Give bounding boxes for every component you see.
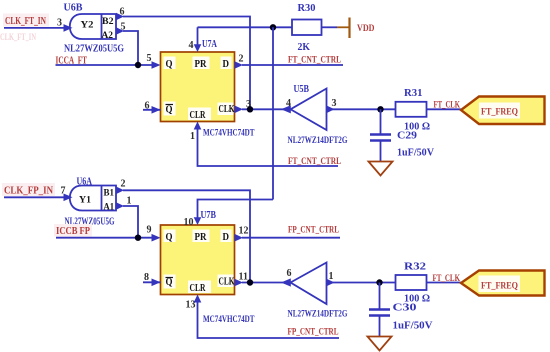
svg-text:CLK_FT_IN: CLK_FT_IN bbox=[0, 32, 36, 42]
wire: U7A PR riser to pull-up rail bbox=[197, 27, 199, 46]
resistor R31 bbox=[396, 102, 427, 117]
svg-text:NL27WZ14DFT2G: NL27WZ14DFT2G bbox=[288, 136, 348, 146]
svg-text:ICCB FP: ICCB FP bbox=[56, 226, 90, 237]
wire: U7B CLK to U5A output bbox=[242, 282, 291, 284]
wire: ICCA_FT to U7A Q pin bbox=[56, 64, 154, 66]
svg-text:FT_CNT_CTRL: FT_CNT_CTRL bbox=[288, 157, 341, 167]
svg-text:FT_FREQ: FT_FREQ bbox=[481, 282, 518, 292]
svg-text:1uF/50V: 1uF/50V bbox=[397, 148, 435, 159]
svg-text:6: 6 bbox=[287, 268, 292, 279]
svg-text:2: 2 bbox=[121, 179, 126, 190]
svg-text:CLR: CLR bbox=[190, 110, 207, 121]
ground symbol (C30) bbox=[368, 337, 392, 351]
svg-text:100 Ω: 100 Ω bbox=[404, 294, 430, 305]
wire: R30 to VDD power port bbox=[322, 26, 338, 28]
svg-text:MC74VHC74DT: MC74VHC74DT bbox=[203, 128, 255, 138]
wire: pull-up rail from PR to R30 bbox=[198, 26, 293, 28]
pin arrow CLR U7B bbox=[194, 295, 202, 303]
junction: pull-up rail / U7B PR riser bbox=[270, 24, 276, 30]
wire: U6A pin 1 down to ICCB_FP net bbox=[123, 206, 138, 238]
svg-text:Y2: Y2 bbox=[81, 21, 94, 31]
wire: U6B pin 5 down to ICCA_FT net bbox=[123, 31, 138, 65]
wire: U7B D to FP_CNT_CTRL bbox=[242, 237, 340, 239]
svg-text:U7A: U7A bbox=[202, 39, 218, 50]
wire: R31 to FT_FREQ port bbox=[427, 108, 462, 110]
junction: CLK net / U6B pin 6 riser bbox=[247, 106, 253, 112]
svg-text:U6B: U6B bbox=[64, 3, 83, 14]
wire: U7B Qbar stub bbox=[143, 281, 161, 283]
pin arrow U6A pin 1 bbox=[116, 202, 124, 210]
pin arrow Qbar U7B bbox=[152, 279, 161, 287]
pin arrow U6B pin 5 bbox=[116, 27, 124, 35]
port FT_FREQ (top) bbox=[461, 97, 545, 125]
pin arrow PR U7A bbox=[194, 44, 202, 52]
pin arrow U6A pin 2 bbox=[116, 187, 124, 195]
svg-text:FP_CNT_CTRL: FP_CNT_CTRL bbox=[288, 328, 339, 338]
pin arrow U6B pin 6 bbox=[116, 13, 124, 21]
svg-text:4: 4 bbox=[189, 40, 194, 51]
ground symbol (C29) bbox=[369, 162, 393, 176]
wire: R32 to FT_FREQ port (bottom) bbox=[427, 282, 462, 284]
pin arrow CLK U7B bbox=[235, 279, 244, 287]
wire: U7A D to FT_CNT_CTRL bbox=[242, 64, 343, 66]
net label CLK_FP_IN bbox=[2, 183, 55, 196]
wire: CLK_FT_IN net into U6B input bbox=[4, 27, 67, 29]
pin arrow U5A output bbox=[281, 278, 291, 286]
port FT_FREQ (bottom) bbox=[461, 271, 545, 296]
net label ICCB FP bbox=[54, 224, 92, 237]
svg-text:11: 11 bbox=[239, 272, 248, 283]
svg-text:MC74VHC74DT: MC74VHC74DT bbox=[203, 314, 255, 324]
svg-text:FP_CNT_CTRL: FP_CNT_CTRL bbox=[288, 226, 339, 236]
wire: U6B pin 6 east then south along x=250 to CLK nets bbox=[123, 17, 250, 110]
pin arrow D U7A bbox=[235, 61, 244, 69]
svg-text:U5B: U5B bbox=[294, 84, 310, 95]
wire: U7A CLK to U5B output bbox=[242, 108, 291, 110]
svg-text:FT_FREQ: FT_FREQ bbox=[481, 108, 518, 118]
pin arrow Q U7B bbox=[152, 234, 161, 242]
svg-text:9: 9 bbox=[147, 225, 152, 236]
svg-text:R31: R31 bbox=[404, 88, 423, 99]
svg-text:CLK_FP_IN: CLK_FP_IN bbox=[4, 186, 54, 197]
resistor R32 bbox=[396, 275, 427, 290]
svg-text:U7B: U7B bbox=[201, 210, 217, 221]
flip-flop U7A MC74VHC74DT bbox=[161, 52, 235, 122]
capacitor C30 bbox=[369, 283, 390, 337]
svg-text:100 Ω: 100 Ω bbox=[404, 122, 430, 133]
svg-text:FT_CLK: FT_CLK bbox=[434, 101, 461, 111]
inverter U5A bbox=[291, 263, 327, 305]
pin arrow D U7B bbox=[235, 234, 244, 242]
svg-text:A2: A2 bbox=[102, 31, 114, 41]
svg-text:NL27WZ14DFT2G: NL27WZ14DFT2G bbox=[288, 310, 348, 320]
pin arrow U5B input bbox=[327, 106, 335, 114]
wire: riser from pull-up rail down to U7B PR rail bbox=[272, 27, 274, 199]
svg-text:1: 1 bbox=[190, 131, 195, 142]
wire: U7A CLR riser then east to FT_CNT_CTRL bbox=[198, 129, 339, 167]
wire: U6A pin 2 east to x=250 riser bbox=[123, 190, 250, 282]
svg-text:D: D bbox=[223, 232, 230, 243]
buffer gate U6A bbox=[64, 186, 117, 213]
svg-text:D: D bbox=[223, 59, 230, 70]
flip-flop U7B MC74VHC74DT bbox=[161, 225, 235, 295]
pin arrow U5A input bbox=[327, 279, 335, 287]
pin arrow CLK U7A bbox=[235, 106, 244, 114]
wire: U5B input to R31 bbox=[327, 108, 396, 110]
svg-text:12: 12 bbox=[239, 226, 249, 237]
svg-text:13: 13 bbox=[186, 300, 196, 311]
net label CLK_FT_IN bbox=[3, 14, 49, 27]
svg-text:3: 3 bbox=[332, 98, 337, 109]
pin arrow U5B output bbox=[281, 105, 291, 113]
svg-text:NL27WZ05U5G: NL27WZ05U5G bbox=[64, 44, 124, 55]
inverter U5B bbox=[291, 89, 327, 131]
svg-text:R30: R30 bbox=[298, 3, 316, 14]
svg-text:B2: B2 bbox=[102, 17, 114, 27]
svg-text:2: 2 bbox=[239, 54, 244, 65]
svg-text:10: 10 bbox=[184, 217, 194, 228]
svg-text:Q: Q bbox=[166, 277, 173, 288]
svg-text:B1: B1 bbox=[104, 189, 115, 199]
svg-text:CLK_FT_IN: CLK_FT_IN bbox=[5, 16, 47, 27]
svg-text:5: 5 bbox=[147, 53, 152, 64]
capacitor C29 bbox=[370, 109, 391, 161]
svg-text:Q: Q bbox=[166, 232, 173, 243]
resistor R30 bbox=[292, 20, 322, 36]
junction: C29 tap on FT_CLK net bbox=[377, 106, 383, 112]
svg-text:PR: PR bbox=[195, 232, 208, 243]
pin arrow CLR U7A bbox=[194, 122, 202, 130]
svg-text:Q: Q bbox=[166, 59, 173, 70]
wire: U7B PR rail from riser bbox=[198, 200, 274, 220]
svg-text:VDD: VDD bbox=[357, 24, 375, 34]
svg-text:FT_CNT_CTRL: FT_CNT_CTRL bbox=[288, 56, 341, 66]
wire: U7A Qbar stub bbox=[143, 109, 161, 111]
power port VDD bar bbox=[348, 18, 350, 39]
svg-text:CLK: CLK bbox=[219, 104, 235, 115]
buffer gate U6B bbox=[64, 14, 117, 41]
svg-text:1uF/50V: 1uF/50V bbox=[393, 321, 434, 332]
junction: C30 tap on FT_CLK net (bottom) bbox=[376, 279, 382, 285]
svg-text:R32: R32 bbox=[404, 262, 426, 273]
svg-text:Y1: Y1 bbox=[79, 196, 91, 206]
svg-text:Q: Q bbox=[166, 105, 173, 116]
pin arrow Qbar U7A bbox=[152, 106, 161, 114]
svg-text:3: 3 bbox=[57, 18, 62, 29]
junction: ICCB_FP / U6A pin 1 bbox=[135, 235, 141, 241]
svg-text:PR: PR bbox=[195, 59, 208, 70]
wire: U5A input to R32 bbox=[327, 282, 396, 284]
svg-text:FT_CLK: FT_CLK bbox=[433, 274, 461, 284]
wire: CLK_FP_IN net into U6A input bbox=[4, 196, 67, 198]
pin arrow Q U7A bbox=[152, 61, 161, 69]
junction: ICCA_FT / U6B pin 5 bbox=[135, 62, 141, 68]
svg-text:A1: A1 bbox=[104, 203, 115, 213]
svg-text:CLR: CLR bbox=[190, 283, 207, 294]
junction: CLK net / U6A pin 2 riser bbox=[247, 279, 253, 285]
svg-text:CLK: CLK bbox=[219, 277, 235, 288]
wire: U7B CLR riser then east to FP_CNT_CTRL bbox=[198, 302, 340, 339]
svg-text:1: 1 bbox=[127, 196, 132, 207]
pin arrow PR U7B bbox=[194, 217, 202, 225]
wire: ICCB_FP to U7B Q pin bbox=[56, 237, 153, 239]
svg-text:2K: 2K bbox=[298, 42, 311, 53]
svg-text:8: 8 bbox=[144, 272, 149, 283]
